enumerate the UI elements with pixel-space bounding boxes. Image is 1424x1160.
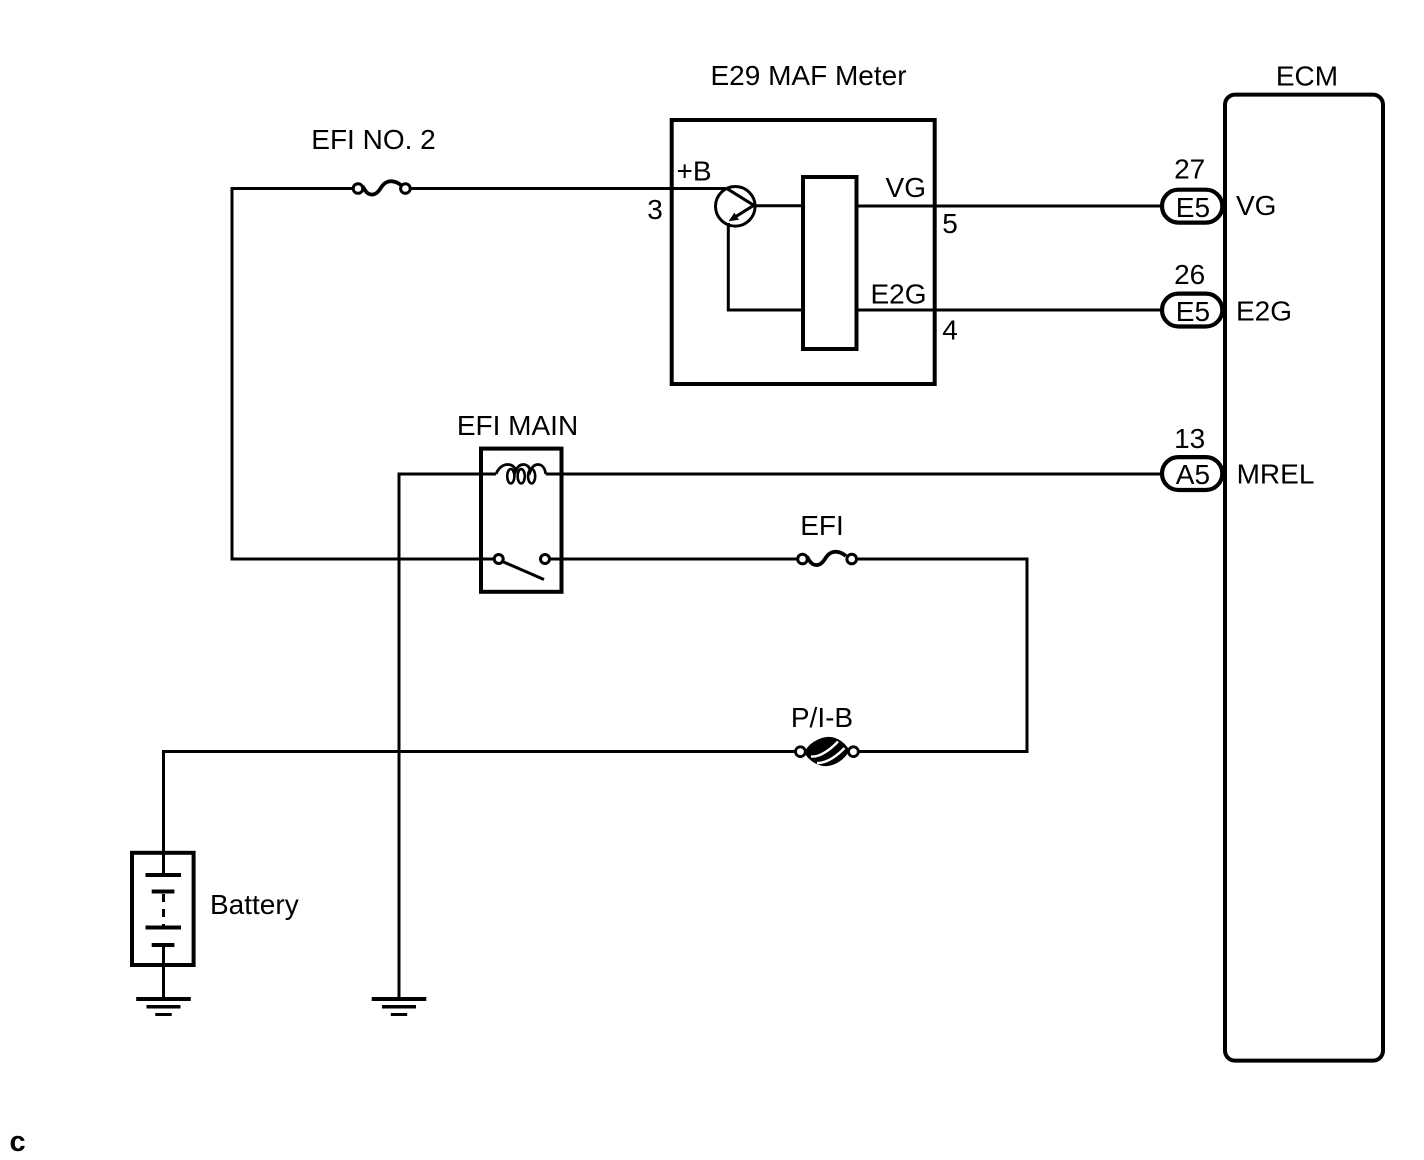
MAF meter component box E29 bbox=[672, 120, 935, 384]
svg-text:MREL: MREL bbox=[1237, 459, 1315, 490]
svg-text:EFI NO. 2: EFI NO. 2 bbox=[311, 124, 435, 155]
svg-text:E5: E5 bbox=[1176, 296, 1210, 327]
relay box EFI MAIN bbox=[481, 449, 562, 592]
svg-text:+B: +B bbox=[677, 156, 712, 187]
svg-text:E29 MAF Meter: E29 MAF Meter bbox=[710, 60, 906, 91]
svg-text:13: 13 bbox=[1174, 423, 1205, 454]
svg-text:VG: VG bbox=[886, 172, 926, 203]
battery plate short 1 bbox=[152, 890, 175, 894]
svg-text:27: 27 bbox=[1174, 154, 1205, 185]
wire transistor base to resistor element bbox=[754, 204, 803, 207]
wire E2G to ECM connector bbox=[857, 309, 1161, 312]
relay coil L1 bbox=[496, 465, 546, 484]
svg-text:EFI MAIN: EFI MAIN bbox=[457, 410, 578, 441]
wire from fuse EFI NO.2 to +B pin 3 bbox=[411, 187, 726, 190]
svg-text:c: c bbox=[10, 1126, 26, 1158]
ground battery bbox=[136, 999, 191, 1015]
ground relay bbox=[372, 999, 427, 1015]
svg-text:26: 26 bbox=[1174, 259, 1205, 290]
connector oval E5 pin 27 bbox=[1162, 190, 1222, 223]
svg-text:A5: A5 bbox=[1176, 459, 1210, 490]
wire transistor bottom to resistor element bottom bbox=[728, 223, 803, 310]
fusible link P/I-B bbox=[796, 737, 859, 766]
resistor element R1 (hot wire) bbox=[803, 177, 857, 349]
svg-text:E2G: E2G bbox=[870, 279, 926, 310]
svg-text:4: 4 bbox=[942, 315, 958, 346]
connector oval A5 pin 13 bbox=[1162, 457, 1222, 490]
battery plate short 2 bbox=[152, 943, 175, 947]
wire from fuse EFI NO.2 corner to relay switch bbox=[232, 189, 494, 560]
transistor Q1 circle bbox=[716, 187, 756, 227]
battery plate long 2 bbox=[146, 926, 182, 930]
wire fuse EFI to fusible link P/I-B bbox=[857, 559, 1027, 752]
svg-text:P/I-B: P/I-B bbox=[791, 702, 853, 733]
battery box bbox=[132, 853, 194, 965]
relay switch contact left bbox=[494, 555, 503, 564]
relay switch contact right bbox=[541, 555, 550, 564]
fuse EFI NO. 2 bbox=[353, 181, 410, 194]
svg-text:ECM: ECM bbox=[1276, 61, 1338, 92]
svg-text:VG: VG bbox=[1236, 190, 1276, 221]
wire VG to ECM connector bbox=[857, 205, 1161, 208]
svg-text:EFI: EFI bbox=[800, 510, 844, 541]
svg-text:5: 5 bbox=[942, 208, 958, 239]
wire relay coil to ground vertical bbox=[399, 474, 496, 999]
battery plate long 1 bbox=[146, 873, 182, 877]
connector oval E5 pin 26 bbox=[1162, 294, 1222, 327]
battery dashed cell link bbox=[162, 894, 165, 926]
transistor Q1 emitter line bbox=[727, 188, 754, 205]
svg-text:E5: E5 bbox=[1176, 192, 1210, 223]
battery internal top lead bbox=[162, 853, 165, 875]
ECM box U1 bbox=[1225, 95, 1383, 1061]
wire fusible link to battery bbox=[164, 752, 796, 852]
wire battery to ground bbox=[162, 945, 165, 999]
relay switch blade bbox=[503, 562, 545, 580]
svg-text:Battery: Battery bbox=[210, 889, 299, 920]
fuse EFI bbox=[798, 552, 857, 565]
wire relay coil to MREL connector bbox=[546, 473, 1160, 476]
svg-text:E2G: E2G bbox=[1236, 296, 1292, 327]
transistor Q1 collector line with arrow bbox=[729, 205, 754, 221]
svg-text:3: 3 bbox=[647, 194, 663, 225]
wire relay switch to fuse EFI bbox=[550, 558, 798, 561]
